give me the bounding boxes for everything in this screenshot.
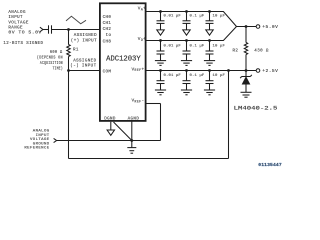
svg-text:(+) INPUT: (+) INPUT [71,38,97,43]
svg-text:REFERENCE: REFERENCE [24,147,49,151]
svg-text:10 μF: 10 μF [213,74,226,78]
svg-text:COM: COM [103,70,112,74]
svg-text:0.01 μF: 0.01 μF [164,74,182,78]
svg-text:430 Ω: 430 Ω [254,50,269,54]
svg-text:+5.0V: +5.0V [262,26,278,30]
svg-text:0.1 μF: 0.1 μF [190,44,205,48]
svg-text:RANGE: RANGE [8,26,23,30]
svg-text:LM4040-2.5: LM4040-2.5 [234,104,278,111]
svg-text:10 μF: 10 μF [213,44,226,48]
svg-text:CH8: CH8 [103,40,112,44]
svg-text:0.01 μF: 0.01 μF [164,14,182,18]
svg-text:ASSIGNED: ASSIGNED [74,34,97,38]
svg-text:600 Ω: 600 Ω [50,51,63,55]
svg-text:INPUT: INPUT [8,16,23,20]
svg-text:(DEPENDS ON: (DEPENDS ON [37,56,63,61]
svg-text:VD+: VD+ [138,37,146,42]
svg-text:VA+: VA+ [138,7,146,12]
svg-text:ASSIGNED: ASSIGNED [73,59,96,63]
svg-text:ADC1203Y: ADC1203Y [106,56,141,64]
svg-text:R2: R2 [232,50,238,54]
svg-text:(-) INPUT: (-) INPUT [70,63,96,68]
svg-text:TIME): TIME) [53,67,63,72]
svg-text:0V TO 5.0V: 0V TO 5.0V [8,32,41,36]
svg-text:12-BITS SIGNED: 12-BITS SIGNED [3,42,43,46]
svg-text:R1: R1 [73,48,79,52]
svg-text:10 μF: 10 μF [213,14,226,18]
svg-text:AGND: AGND [128,118,140,122]
svg-text:to: to [106,34,112,38]
svg-text:VREF+: VREF+ [132,67,145,72]
svg-text:CH1: CH1 [103,22,112,26]
svg-text:0.01 μF: 0.01 μF [164,44,182,48]
svg-text:ACQUISITION: ACQUISITION [40,62,63,66]
svg-text:VREF-: VREF- [132,99,145,104]
svg-text:ANALOG: ANALOG [8,11,26,15]
svg-text:0.1 μF: 0.1 μF [190,74,205,78]
svg-text:+2.5V: +2.5V [262,70,278,74]
svg-text:01135447: 01135447 [258,162,282,168]
svg-text:0.1 μF: 0.1 μF [190,14,205,18]
svg-text:CH2: CH2 [103,28,112,32]
svg-text:CH0: CH0 [103,16,112,20]
svg-text:VOLTAGE: VOLTAGE [8,21,28,25]
svg-text:DGND: DGND [104,118,116,122]
